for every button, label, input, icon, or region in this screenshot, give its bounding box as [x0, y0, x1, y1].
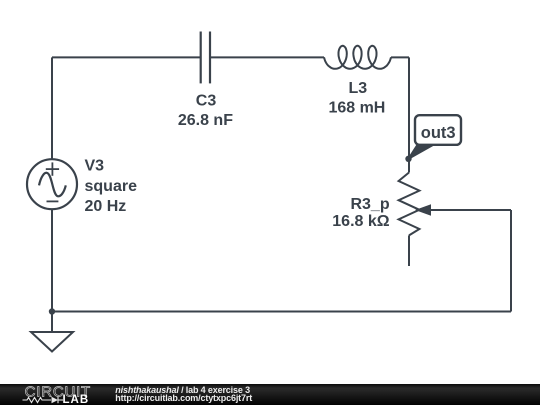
V3 sine wave: [39, 173, 66, 197]
svg-text:LAB: LAB: [63, 394, 90, 405]
potentiometer wiper arrow: [415, 204, 431, 216]
potentiometer R3_p zigzag: [399, 173, 420, 236]
junction node dot: [49, 308, 55, 314]
wire wiper to right: [429, 209, 511, 211]
wire capacitor to inductor: [210, 56, 324, 58]
voltage source V3 circle: [27, 159, 77, 209]
ground symbol: [31, 332, 73, 352]
wire inductor to right corner: [391, 56, 409, 58]
wire bottom horizontal: [52, 311, 511, 313]
wire left vertical: [51, 57, 53, 159]
callout tail for out3: [409, 144, 435, 159]
svg-text:http://circuitlab.com/ctytxpc6: http://circuitlab.com/ctytxpc6jt7rt: [115, 393, 252, 403]
V3 plus sign: [46, 162, 59, 175]
wire top-left horizontal: [52, 56, 201, 58]
wire junction to ground: [51, 312, 53, 333]
inductor L3: [324, 46, 391, 69]
wire source bottom to junction: [51, 209, 53, 311]
wire right vertical upper: [408, 57, 410, 172]
logo diode triangle: [52, 397, 59, 403]
logo resistor-diode squiggle: [23, 397, 64, 403]
potentiometer bottom terminal: [408, 235, 410, 266]
V3 minus sign: [47, 200, 59, 202]
callout box out3: [415, 115, 461, 145]
footer bar: [0, 384, 540, 405]
node out3 dot: [405, 156, 411, 162]
capacitor C3: [201, 32, 210, 84]
wire right vertical lower: [510, 210, 512, 312]
